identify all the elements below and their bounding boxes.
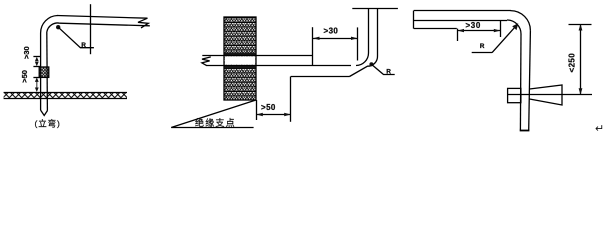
wire: vertical crossing line	[90, 4, 92, 54]
ceiling line	[352, 8, 398, 10]
wire: horizontal pipe bottom line	[60, 23, 150, 26]
node: bend point dot	[369, 62, 373, 66]
floor slab hatch	[4, 93, 127, 98]
channel left end cap	[413, 11, 415, 29]
wire: channel bottom line	[414, 28, 457, 30]
wire: second conduit diagonal up to bend	[350, 56, 378, 77]
svg-text:绝缘支点: 绝缘支点	[195, 117, 236, 128]
wire: vertical line to ceiling (inner)	[368, 8, 370, 53]
horn centerline	[508, 94, 592, 96]
dimension >30 left extension	[457, 29, 459, 41]
node: bend point dot	[56, 25, 60, 29]
wire: vertical pipe left line	[519, 34, 522, 130]
svg-text:>50: >50	[20, 70, 29, 83]
wire: bend curve up from pipe bottom line	[356, 53, 369, 66]
wire: pipe top line	[202, 55, 313, 57]
leader line from bend dot	[58, 27, 94, 48]
wire: channel middle line	[414, 20, 507, 22]
svg-text:>30: >30	[22, 46, 31, 59]
leader tail line	[472, 52, 492, 54]
leader arrowhead	[512, 23, 518, 30]
dimension >30 right extension line	[357, 27, 359, 60]
bend inner curve	[507, 20, 521, 34]
dimension <250 line	[580, 24, 582, 95]
svg-text:>50: >50	[261, 103, 276, 112]
dimension >30 line	[313, 38, 358, 40]
dark hatch bar above pipe in wall	[225, 53, 256, 56]
flared horn (喇叭口)	[530, 85, 563, 105]
svg-text:(立弯): (立弯)	[35, 119, 61, 129]
pipe bottom cap	[520, 130, 530, 132]
svg-text:>30: >30	[466, 21, 481, 30]
pipe bottom break notch	[41, 110, 48, 116]
dimension >50 arrows	[256, 113, 290, 116]
pipe break symbol at right end	[138, 18, 148, 28]
bend outer curve	[41, 16, 58, 34]
svg-text:↵: ↵	[595, 123, 604, 135]
dimension >50 arrows (vertical)	[35, 77, 39, 92]
floor slab top line	[4, 92, 127, 94]
extension tick at bend end	[33, 56, 40, 58]
socket box on left of pipe	[508, 88, 521, 102]
extension tick at sleeve top	[33, 66, 40, 68]
svg-text:R: R	[81, 42, 86, 49]
wire: vertical pipe right line	[529, 31, 531, 131]
leader line from bend dot	[371, 64, 394, 74]
capacitor-like sleeve (protective sleeve, hatched)	[39, 67, 49, 77]
dimension >50 left extension line	[256, 100, 258, 120]
dimension <250 arrows	[579, 24, 583, 95]
wire: vertical pipe right line	[46, 32, 49, 111]
dimension >30 arrows	[458, 29, 501, 32]
white pipe channel through wall	[225, 56, 255, 64]
pipe break symbol at left end	[202, 57, 211, 66]
dimension >50 line	[256, 114, 290, 116]
wire: vertical pipe left line	[40, 33, 42, 110]
leader diagonal with arrow to bend	[492, 27, 516, 53]
dimension >30 right extension	[500, 21, 502, 37]
wire: second conduit lower horizontal line	[291, 76, 350, 78]
dimension >30 arrows (vertical)	[35, 57, 39, 67]
bend outer curve	[511, 11, 531, 31]
wire: second conduit lower corner vertical	[290, 77, 292, 122]
pipe end cap / dimension extension line	[312, 27, 314, 65]
extension tick at sleeve bottom	[33, 77, 40, 79]
leader diagonal for insulation support label	[171, 100, 256, 128]
svg-text:R: R	[480, 43, 485, 50]
dimension >30 line	[458, 30, 501, 32]
wall (hatched insulation column)	[224, 17, 256, 100]
wire: horizontal pipe top line	[57, 16, 148, 19]
bend inner curve	[47, 23, 60, 32]
dimension <250 top bar	[569, 24, 592, 26]
svg-text:R: R	[386, 69, 391, 76]
wire: vertical line to ceiling (outer)	[377, 8, 379, 56]
dimension >30 arrows	[313, 37, 358, 40]
floor slab bottom line	[4, 98, 127, 100]
svg-text:<250: <250	[568, 53, 577, 73]
wire: channel top line	[414, 10, 511, 12]
dark hatch bar below pipe in wall	[225, 66, 256, 69]
wire: pipe bottom line	[206, 65, 351, 67]
svg-text:>30: >30	[324, 27, 339, 36]
